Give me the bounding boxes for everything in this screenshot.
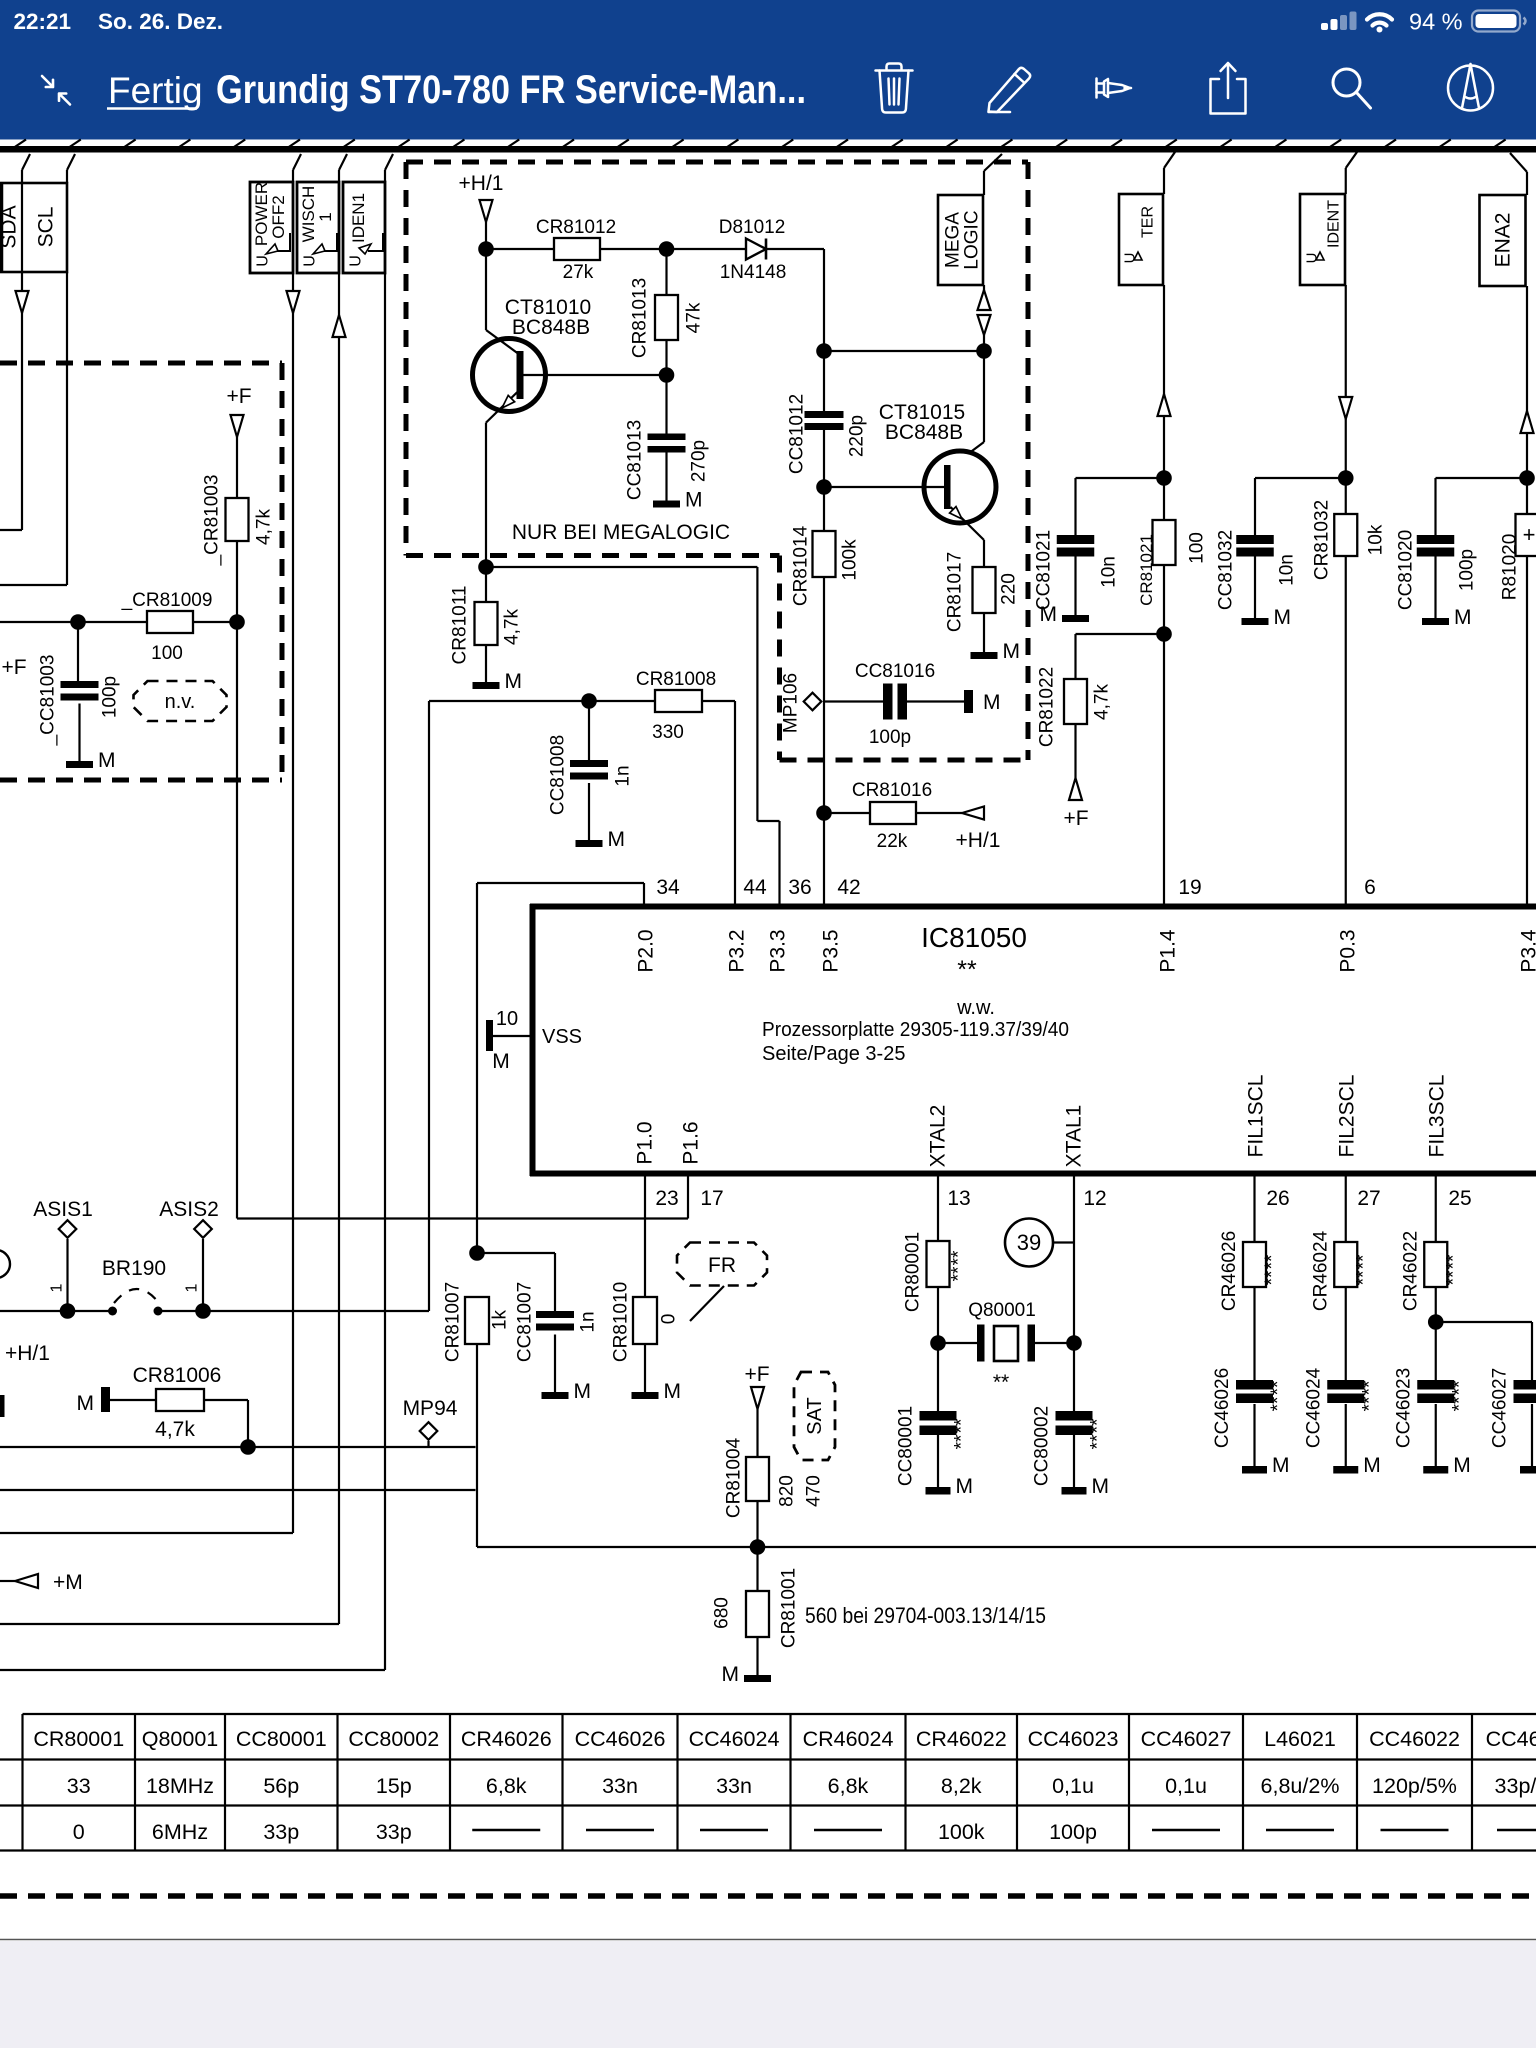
svg-text:**: **: [957, 956, 977, 984]
svg-text:M: M: [983, 691, 1001, 714]
svg-text:**: **: [1449, 1380, 1470, 1395]
svg-text:M: M: [722, 1663, 740, 1686]
svg-text:CR81011: CR81011: [450, 586, 471, 665]
svg-text:680: 680: [712, 1597, 733, 1629]
svg-text:CC46023: CC46023: [1393, 1368, 1414, 1448]
svg-text:XTAL2: XTAL2: [926, 1105, 949, 1168]
svg-text:M: M: [608, 828, 626, 851]
svg-text:LOGIC: LOGIC: [962, 210, 983, 269]
svg-text:w.w.: w.w.: [956, 997, 995, 1019]
svg-text:6,8u/2%: 6,8u/2%: [1261, 1774, 1340, 1798]
svg-text:ENA2: ENA2: [1491, 213, 1514, 268]
svg-text:P3.2: P3.2: [725, 929, 748, 972]
svg-text:+F: +F: [1, 656, 26, 679]
svg-text:CC46027: CC46027: [1490, 1368, 1511, 1448]
svg-text:VSS: VSS: [542, 1026, 582, 1048]
svg-text:BC848B: BC848B: [885, 421, 963, 444]
svg-text:33: 33: [67, 1774, 91, 1798]
svg-text:MP94: MP94: [403, 1397, 458, 1420]
svg-text:10n: 10n: [1277, 554, 1298, 586]
svg-text:1: 1: [316, 212, 335, 221]
svg-text:560 bei 29704-003.13/14/15: 560 bei 29704-003.13/14/15: [805, 1603, 1046, 1628]
svg-text:56p: 56p: [263, 1774, 299, 1798]
svg-text:CC46026: CC46026: [1212, 1368, 1233, 1448]
svg-text:CC81007: CC81007: [515, 1282, 536, 1362]
svg-text:0,1u: 0,1u: [1052, 1774, 1094, 1798]
svg-text:IDEN1: IDEN1: [349, 193, 368, 243]
svg-text:CC46021: CC46021: [1486, 1727, 1536, 1751]
svg-text:12: 12: [1083, 1187, 1106, 1210]
svg-text:CR46022: CR46022: [916, 1727, 1007, 1751]
svg-text:39: 39: [1017, 1230, 1041, 1255]
svg-text:n.v.: n.v.: [165, 691, 196, 713]
svg-text:ASIS1: ASIS1: [33, 1198, 93, 1221]
svg-text:CR80001: CR80001: [903, 1232, 924, 1312]
svg-text:CC46024: CC46024: [1303, 1367, 1324, 1448]
svg-text:CR81007: CR81007: [443, 1282, 464, 1362]
svg-text:100p: 100p: [1457, 549, 1478, 591]
svg-text:R81020: R81020: [1500, 534, 1521, 601]
svg-text:FIL3SCL: FIL3SCL: [1425, 1075, 1448, 1158]
svg-text:CR81021: CR81021: [1137, 534, 1156, 606]
svg-text:**: **: [1262, 1270, 1283, 1285]
svg-text:FIL2SCL: FIL2SCL: [1335, 1075, 1358, 1158]
svg-text:SCL: SCL: [34, 207, 57, 248]
svg-text:44: 44: [743, 876, 767, 899]
svg-text:330: 330: [652, 722, 684, 743]
svg-text:Seite/Page 3-25: Seite/Page 3-25: [762, 1043, 905, 1065]
svg-text:CR81022: CR81022: [1037, 667, 1058, 747]
svg-text:CC46024: CC46024: [689, 1727, 780, 1751]
svg-text:25: 25: [1448, 1187, 1471, 1210]
svg-text:M: M: [77, 1392, 95, 1415]
svg-text:100p: 100p: [869, 727, 911, 748]
svg-text:23: 23: [655, 1187, 678, 1210]
svg-text:0: 0: [659, 1314, 680, 1325]
svg-text:IDENT: IDENT: [1326, 200, 1343, 248]
svg-text:BC848B: BC848B: [512, 316, 590, 339]
svg-text:15p: 15p: [376, 1774, 412, 1798]
svg-text:L46021: L46021: [1264, 1727, 1336, 1751]
svg-text:0,1u: 0,1u: [1165, 1774, 1207, 1798]
svg-text:47k: 47k: [684, 302, 705, 333]
svg-text:6MHz: 6MHz: [152, 1820, 208, 1844]
svg-text:**: **: [1443, 1254, 1464, 1269]
svg-text:M: M: [1092, 1475, 1110, 1498]
svg-text:22:21: 22:21: [14, 9, 72, 34]
svg-text:**: **: [1088, 1434, 1109, 1449]
svg-text:CC46027: CC46027: [1141, 1727, 1232, 1751]
svg-text:220: 220: [999, 573, 1020, 605]
svg-text:4,7k: 4,7k: [1092, 684, 1113, 720]
svg-text:**: **: [1353, 1270, 1374, 1285]
svg-text:_CC81003: _CC81003: [38, 655, 59, 747]
svg-text:CC46023: CC46023: [1028, 1727, 1119, 1751]
svg-text:**: **: [1262, 1254, 1283, 1269]
svg-text:CC46026: CC46026: [575, 1727, 666, 1751]
svg-text:34: 34: [656, 876, 680, 899]
svg-text:17: 17: [700, 1187, 723, 1210]
svg-text:10n: 10n: [1099, 556, 1120, 588]
svg-text:**: **: [1359, 1396, 1380, 1411]
svg-text:13: 13: [947, 1187, 970, 1210]
svg-text:P2.0: P2.0: [634, 929, 657, 972]
svg-text:+H/1: +H/1: [956, 829, 1001, 852]
svg-text:**: **: [1359, 1380, 1380, 1395]
svg-text:ASIS2: ASIS2: [159, 1198, 219, 1221]
svg-text:CC81020: CC81020: [1396, 530, 1417, 610]
svg-text:P0.3: P0.3: [1336, 929, 1359, 972]
svg-text:100: 100: [1187, 532, 1208, 564]
svg-text:1N4148: 1N4148: [720, 262, 787, 283]
svg-text:+H/1: +H/1: [5, 1342, 50, 1365]
svg-text:33n: 33n: [716, 1774, 752, 1798]
svg-text:220p: 220p: [847, 415, 868, 457]
svg-text:+F: +F: [744, 1363, 769, 1386]
svg-text:Prozessorplatte 29305-119.37/3: Prozessorplatte 29305-119.37/39/40: [762, 1019, 1069, 1041]
svg-text:**: **: [952, 1418, 973, 1433]
svg-text:CR81001: CR81001: [779, 1568, 800, 1648]
svg-text:D81012: D81012: [719, 217, 786, 238]
svg-text:M: M: [1040, 603, 1058, 626]
svg-text:CC46022: CC46022: [1369, 1727, 1460, 1751]
svg-text:U: U: [302, 255, 319, 267]
svg-text:P1.4: P1.4: [1156, 929, 1179, 973]
svg-text:CC80002: CC80002: [348, 1727, 439, 1751]
svg-text:+: +: [1523, 522, 1536, 547]
svg-text:36: 36: [788, 876, 811, 899]
svg-text:1n: 1n: [578, 1311, 599, 1332]
svg-text:33p: 33p: [376, 1820, 412, 1844]
svg-text:+M: +M: [53, 1571, 83, 1594]
svg-text:270p: 270p: [689, 440, 710, 482]
svg-text:M: M: [1363, 1454, 1381, 1477]
svg-text:CR81006: CR81006: [133, 1364, 222, 1387]
svg-text:**: **: [1449, 1396, 1470, 1411]
svg-text:P3.5: P3.5: [819, 929, 842, 972]
svg-text:4,7k: 4,7k: [155, 1418, 195, 1441]
svg-text:4,7k: 4,7k: [502, 609, 523, 645]
svg-text:CR81004: CR81004: [724, 1437, 745, 1518]
svg-text:CC81016: CC81016: [855, 661, 935, 682]
svg-text:Fertig: Fertig: [108, 70, 203, 111]
svg-text:P1.6: P1.6: [679, 1121, 702, 1164]
svg-text:Grundig ST70-780 FR Service-Ma: Grundig ST70-780 FR Service-Man...: [216, 68, 806, 112]
svg-text:So. 26. Dez.: So. 26. Dez.: [98, 9, 223, 34]
svg-text:**: **: [949, 1266, 970, 1281]
svg-text:M: M: [1453, 1454, 1471, 1477]
svg-text:_CR81003: _CR81003: [202, 475, 223, 567]
svg-text:CR81012: CR81012: [536, 217, 616, 238]
svg-text:P3.3: P3.3: [766, 929, 789, 972]
svg-text:42: 42: [837, 876, 860, 899]
svg-text:Q80001: Q80001: [142, 1727, 219, 1751]
svg-text:M: M: [98, 749, 116, 772]
svg-text:**: **: [993, 1371, 1009, 1394]
svg-text:SDA: SDA: [0, 205, 20, 248]
svg-text:_CR81009: _CR81009: [121, 590, 213, 611]
svg-text:M: M: [1003, 640, 1021, 663]
svg-text:6,8k: 6,8k: [486, 1774, 527, 1798]
svg-text:CC80002: CC80002: [1032, 1406, 1053, 1486]
svg-text:10: 10: [496, 1008, 518, 1030]
svg-text:6: 6: [1364, 876, 1376, 899]
svg-text:22k: 22k: [877, 831, 908, 852]
svg-text:CR46026: CR46026: [1219, 1231, 1240, 1311]
svg-text:33p: 33p: [263, 1820, 299, 1844]
svg-text:100k: 100k: [840, 539, 861, 581]
svg-text:6,8k: 6,8k: [828, 1774, 869, 1798]
svg-text:SAT: SAT: [804, 1397, 826, 1434]
svg-text:CR80001: CR80001: [33, 1727, 124, 1751]
svg-text:CR46024: CR46024: [1310, 1230, 1331, 1311]
svg-text:M: M: [1454, 606, 1472, 629]
svg-text:+F: +F: [226, 385, 251, 408]
svg-text:P3.4: P3.4: [1517, 929, 1536, 973]
svg-text:33n: 33n: [602, 1774, 638, 1798]
svg-text:**: **: [1088, 1418, 1109, 1433]
svg-text:0: 0: [73, 1820, 85, 1844]
svg-text:CR81016: CR81016: [852, 780, 932, 801]
svg-text:10k: 10k: [1366, 524, 1387, 555]
svg-text:27k: 27k: [563, 262, 594, 283]
svg-text:XTAL1: XTAL1: [1062, 1105, 1085, 1168]
svg-text:CR81013: CR81013: [630, 278, 651, 358]
svg-text:100p: 100p: [1049, 1820, 1097, 1844]
svg-text:27: 27: [1357, 1187, 1380, 1210]
svg-text:+F: +F: [1063, 807, 1088, 830]
svg-text:CR81032: CR81032: [1312, 500, 1333, 580]
svg-text:1: 1: [49, 1283, 66, 1292]
svg-text:820: 820: [777, 1475, 798, 1507]
svg-text:M: M: [685, 489, 703, 512]
svg-text:+H/1: +H/1: [459, 172, 504, 195]
svg-text:M: M: [1272, 1454, 1290, 1477]
svg-text:U: U: [348, 255, 365, 267]
svg-text:FIL1SCL: FIL1SCL: [1244, 1075, 1267, 1158]
svg-text:M: M: [1274, 606, 1292, 629]
svg-text:**: **: [952, 1434, 973, 1449]
svg-text:**: **: [1268, 1396, 1289, 1411]
svg-text:100: 100: [151, 643, 183, 664]
svg-text:M: M: [664, 1380, 682, 1403]
svg-text:33p/2%: 33p/2%: [1495, 1774, 1536, 1798]
svg-text:94 %: 94 %: [1409, 9, 1463, 35]
svg-text:CR46022: CR46022: [1400, 1231, 1421, 1311]
svg-text:P1.0: P1.0: [633, 1121, 656, 1164]
svg-text:MEGA: MEGA: [943, 212, 964, 268]
svg-text:CR46024: CR46024: [803, 1727, 894, 1751]
svg-text:CC81013: CC81013: [625, 420, 646, 500]
svg-text:IC81050: IC81050: [921, 922, 1027, 953]
svg-text:BR190: BR190: [102, 1257, 166, 1280]
svg-text:1: 1: [184, 1283, 201, 1292]
svg-text:**: **: [1268, 1380, 1289, 1395]
svg-text:1n: 1n: [613, 765, 634, 786]
svg-text:OFF2: OFF2: [269, 195, 288, 238]
svg-text:CC81008: CC81008: [548, 735, 569, 815]
svg-text:CR81008: CR81008: [636, 669, 716, 690]
svg-text:CR81014: CR81014: [791, 525, 812, 606]
svg-text:8,2k: 8,2k: [941, 1774, 982, 1798]
svg-text:Q80001: Q80001: [968, 1300, 1036, 1321]
svg-text:18MHz: 18MHz: [146, 1774, 214, 1798]
svg-text:CR81017: CR81017: [945, 552, 966, 632]
svg-text:CR46026: CR46026: [461, 1727, 552, 1751]
svg-text:NUR BEI MEGALOGIC: NUR BEI MEGALOGIC: [512, 521, 730, 544]
svg-text:CC80001: CC80001: [896, 1406, 917, 1486]
svg-text:MP106: MP106: [781, 673, 802, 733]
svg-text:**: **: [949, 1250, 970, 1265]
svg-text:4,7k: 4,7k: [254, 509, 275, 545]
svg-text:CC81021: CC81021: [1034, 530, 1055, 610]
svg-text:26: 26: [1266, 1187, 1289, 1210]
svg-text:CC81032: CC81032: [1216, 530, 1237, 610]
svg-text:U: U: [255, 255, 272, 267]
svg-text:CC80001: CC80001: [236, 1727, 327, 1751]
svg-text:M: M: [574, 1380, 592, 1403]
svg-text:**: **: [1353, 1254, 1374, 1269]
svg-text:M: M: [956, 1475, 974, 1498]
svg-text:120p/5%: 120p/5%: [1372, 1774, 1457, 1798]
svg-text:19: 19: [1178, 876, 1201, 899]
svg-text:**: **: [1443, 1270, 1464, 1285]
svg-text:M: M: [505, 670, 523, 693]
svg-text:M: M: [492, 1050, 510, 1073]
svg-text:TER: TER: [1140, 206, 1157, 238]
svg-text:100p: 100p: [100, 676, 121, 718]
svg-text:FR: FR: [708, 1254, 736, 1277]
svg-text:470: 470: [804, 1475, 825, 1507]
svg-text:CC81012: CC81012: [787, 394, 808, 474]
svg-text:100k: 100k: [938, 1820, 985, 1844]
svg-text:1k: 1k: [490, 1309, 511, 1330]
svg-text:CR81010: CR81010: [611, 1282, 632, 1362]
